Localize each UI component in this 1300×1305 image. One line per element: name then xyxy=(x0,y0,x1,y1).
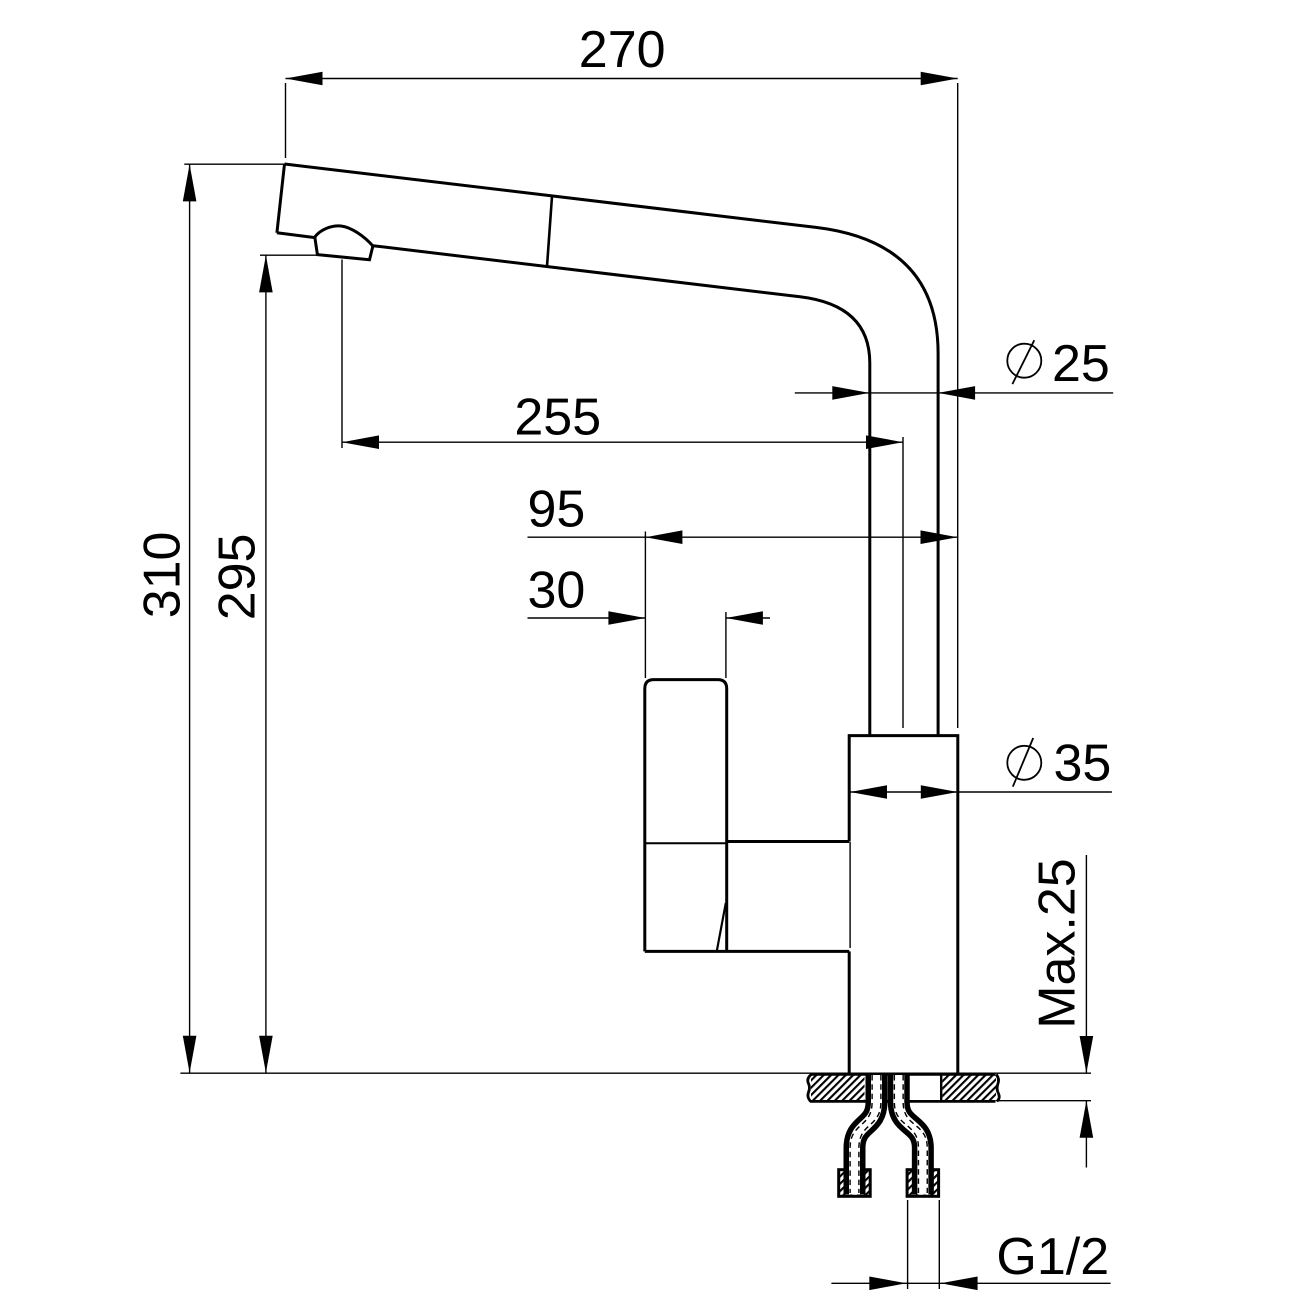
svg-text:255: 255 xyxy=(514,389,601,447)
left hose connector G1/2 xyxy=(839,1170,871,1197)
dimension 295 xyxy=(260,255,319,1073)
slab left break edge xyxy=(808,1074,812,1101)
counter slab hatched right part xyxy=(943,1075,997,1100)
handle lever xyxy=(645,680,727,952)
right hose connector G1/2 xyxy=(907,1170,939,1197)
svg-text:270: 270 xyxy=(579,21,666,79)
svg-text:G1/2: G1/2 xyxy=(996,1228,1109,1286)
counter slab hatched left part xyxy=(811,1075,865,1100)
dimension 270 xyxy=(286,79,958,729)
svg-text:95: 95 xyxy=(528,481,586,539)
aerator xyxy=(315,226,373,260)
dimension G1/2 xyxy=(831,1200,1110,1289)
svg-text:Max.25: Max.25 xyxy=(1029,858,1087,1029)
right hose inner dashed walls xyxy=(894,1075,927,1193)
mounting hole right boundary xyxy=(940,1075,942,1101)
svg-text:35: 35 xyxy=(1054,735,1112,793)
svg-text:295: 295 xyxy=(209,534,267,621)
arm top xyxy=(727,840,850,843)
dimension 30 xyxy=(528,612,771,678)
handle/arm bottom xyxy=(645,950,849,953)
dimension 95 xyxy=(528,532,958,679)
dimension dia 35 xyxy=(850,791,1112,793)
dimension Max.25 xyxy=(1085,855,1087,1168)
dimension 255 xyxy=(342,260,903,729)
svg-text:310: 310 xyxy=(134,532,192,619)
handle joint line xyxy=(645,842,727,844)
svg-text:25: 25 xyxy=(1052,335,1110,393)
left hose inner dashed walls xyxy=(850,1075,881,1193)
handle diagonal joint xyxy=(717,903,726,951)
faucet body xyxy=(849,736,958,1073)
slab right break edge xyxy=(996,1074,999,1101)
slab bottom edge xyxy=(810,1100,996,1103)
dimension 310 xyxy=(184,164,284,1073)
dimension dia 25 xyxy=(795,392,1113,394)
countertop deck thin lines xyxy=(180,1072,1091,1074)
left hose bore xyxy=(855,1075,877,1195)
right hose bore xyxy=(899,1075,923,1195)
left hose xyxy=(855,1075,877,1195)
right hose xyxy=(899,1075,923,1195)
svg-text:30: 30 xyxy=(528,561,586,619)
faucet spout outline xyxy=(277,164,938,736)
spray head joint xyxy=(547,196,552,266)
slab top edge xyxy=(810,1073,996,1076)
body joint thin line across arm xyxy=(849,842,851,948)
